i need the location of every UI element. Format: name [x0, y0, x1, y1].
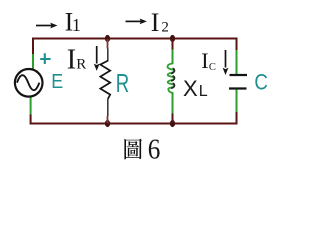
arrow IC (down): [225, 50, 227, 68]
resistor R zigzag: [100, 61, 110, 99]
wire: right rail upper (green): [236, 50, 238, 74]
wire: R bottom lead (dark): [107, 99, 109, 116]
svg-text:6: 6: [148, 133, 161, 165]
wire: bottom bus: [30, 123, 238, 125]
wire: R bottom lead (red stub): [107, 116, 109, 124]
wire: left rail upper (red): [32, 38, 34, 55]
svg-text:I: I: [151, 8, 160, 37]
inductor XL coil (dark back arcs): [171, 68, 174, 88]
polarity plus sign: [40, 53, 50, 64]
inductor XL coil (green loops): [168, 63, 175, 93]
svg-text:E: E: [51, 71, 63, 93]
AC source E: sine wave: [17, 75, 39, 90]
svg-text:1: 1: [72, 15, 81, 35]
wire: right rail upper (red): [236, 38, 238, 50]
node J2 (top bus / XL branch): [170, 35, 175, 42]
wire: R top lead (red stub): [107, 39, 109, 49]
wire: left rail upper (green): [32, 54, 34, 69]
svg-text:I: I: [201, 48, 208, 73]
capacitor C: bottom plate: [229, 87, 247, 89]
wire: right rail lower (red): [236, 112, 238, 124]
svg-text:L: L: [199, 83, 208, 100]
wire: XL bottom lead (red): [172, 114, 174, 124]
wire: right rail lower (green): [236, 90, 238, 113]
AC source E: circle: [15, 69, 43, 97]
svg-text:2: 2: [161, 19, 169, 35]
svg-text:R: R: [76, 56, 86, 72]
svg-text:I: I: [67, 44, 76, 75]
capacitor C: top plate: [230, 74, 248, 76]
node J1 (top bus / R branch): [105, 35, 110, 42]
wire: XL bottom lead (green): [172, 93, 174, 114]
arrow I1: [36, 25, 52, 27]
wire: source bottom lead (red): [30, 115, 32, 124]
svg-text:R: R: [116, 69, 129, 98]
svg-text:X: X: [183, 76, 198, 101]
wire: R top lead (dark): [107, 49, 109, 62]
arrow I2: [126, 20, 142, 22]
node J4 (bottom bus / XL branch): [170, 120, 175, 127]
wire: XL top lead (red): [172, 39, 174, 50]
svg-text:C: C: [254, 71, 268, 95]
wire: top bus: [33, 38, 238, 40]
node J3 (bottom bus / R branch): [105, 120, 110, 127]
arrow IR (down): [96, 46, 98, 64]
caption: 圖 (CJK glyph as path): [124, 139, 142, 160]
wire: XL top lead (green): [172, 50, 174, 65]
wire: source bottom lead (green): [30, 98, 32, 115]
svg-text:C: C: [209, 62, 216, 73]
